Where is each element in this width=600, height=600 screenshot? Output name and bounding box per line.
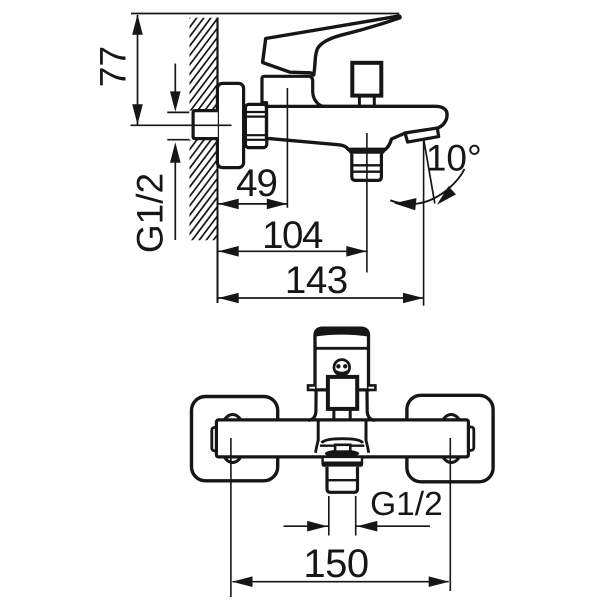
dimension G1/2: lower arrow xyxy=(174,163,176,241)
lever handle (front view) xyxy=(315,328,369,390)
wall face line (lower segment, continues as extension line) xyxy=(217,140,219,303)
outlet pipe (front view) xyxy=(327,467,358,493)
column sides joining handle to tube xyxy=(308,390,316,421)
dimension G1/2 (pipe thread): ticks xyxy=(167,111,189,113)
wall hatching xyxy=(188,0,219,283)
diverter knob stem xyxy=(358,96,361,107)
dimension 77: vertical dimension line with arrows xyxy=(137,15,139,125)
lever handle (side view) xyxy=(263,16,400,75)
svg-text:150: 150 xyxy=(303,542,368,586)
shower outlet collar (filled) xyxy=(346,149,388,154)
G1/2 wall supply pipe xyxy=(193,111,218,139)
aerator (tilted 10 deg) xyxy=(405,128,439,142)
10 deg annotation: left arrowhead xyxy=(394,198,417,210)
svg-text:49: 49 xyxy=(236,162,277,205)
spout bell sides (front) xyxy=(317,421,320,441)
diverter knob (side view) xyxy=(352,63,381,96)
dimension 143 xyxy=(219,297,424,299)
svg-text:G1/2: G1/2 xyxy=(130,173,171,253)
handle split line xyxy=(315,347,369,350)
10 deg annotation: swing arc xyxy=(390,169,464,204)
dimension 104 xyxy=(219,250,367,252)
left wall escutcheon xyxy=(192,397,278,481)
dimension 49 xyxy=(219,203,288,205)
outlet axis extension line xyxy=(366,133,368,273)
logo medallion xyxy=(334,360,350,376)
body tube (front view) xyxy=(216,420,468,457)
shower outlet pipe (side view) xyxy=(352,154,382,181)
spout bell dome xyxy=(322,439,363,443)
pipe centerline xyxy=(131,124,232,126)
diverter knob (front view) xyxy=(328,377,357,409)
svg-text:143: 143 xyxy=(285,259,348,302)
diverter knob stem (front) xyxy=(332,409,335,420)
cartridge cap xyxy=(262,76,325,106)
union nut xyxy=(245,104,266,147)
cartridge axis extension line xyxy=(286,88,288,208)
right ear tab xyxy=(369,385,376,390)
collar white band xyxy=(323,457,362,463)
faucet body with spout (side view) xyxy=(267,104,448,149)
right mounting axis xyxy=(449,438,451,591)
escutcheon flange (side view) xyxy=(217,83,243,167)
dimension G1/2: upper arrow xyxy=(174,64,176,96)
spout notch detail xyxy=(335,445,350,452)
dimension 77: top extension line xyxy=(131,13,399,15)
spout bell flare edges xyxy=(316,440,319,453)
pipe OD extension lines xyxy=(328,496,330,536)
wall face line (upper segment) xyxy=(216,18,218,111)
handle top edge thick band xyxy=(313,327,370,337)
svg-text:77: 77 xyxy=(93,46,134,87)
left union (ellipse behind tube) xyxy=(220,415,246,463)
svg-text:10°: 10° xyxy=(426,138,482,179)
left tube end bump xyxy=(212,428,218,451)
aerator axis extension line xyxy=(423,141,425,306)
dimension 150 xyxy=(233,581,449,583)
10 deg annotation: slanted ray xyxy=(424,141,435,204)
left ear tab xyxy=(308,385,315,390)
right wall escutcheon xyxy=(407,395,493,482)
pipe OD dimension arrows xyxy=(284,525,329,527)
left mounting axis xyxy=(230,438,232,597)
spout inner shoulder xyxy=(320,445,364,447)
right union (ellipse behind tube) xyxy=(438,415,464,463)
svg-text:G1/2: G1/2 xyxy=(370,486,443,523)
10 deg annotation: right arrowhead xyxy=(437,186,456,205)
right tube end bump xyxy=(467,427,474,450)
svg-text:104: 104 xyxy=(262,214,323,257)
spout mouth (dark ellipse) xyxy=(325,450,359,458)
collar dark band xyxy=(322,462,363,466)
